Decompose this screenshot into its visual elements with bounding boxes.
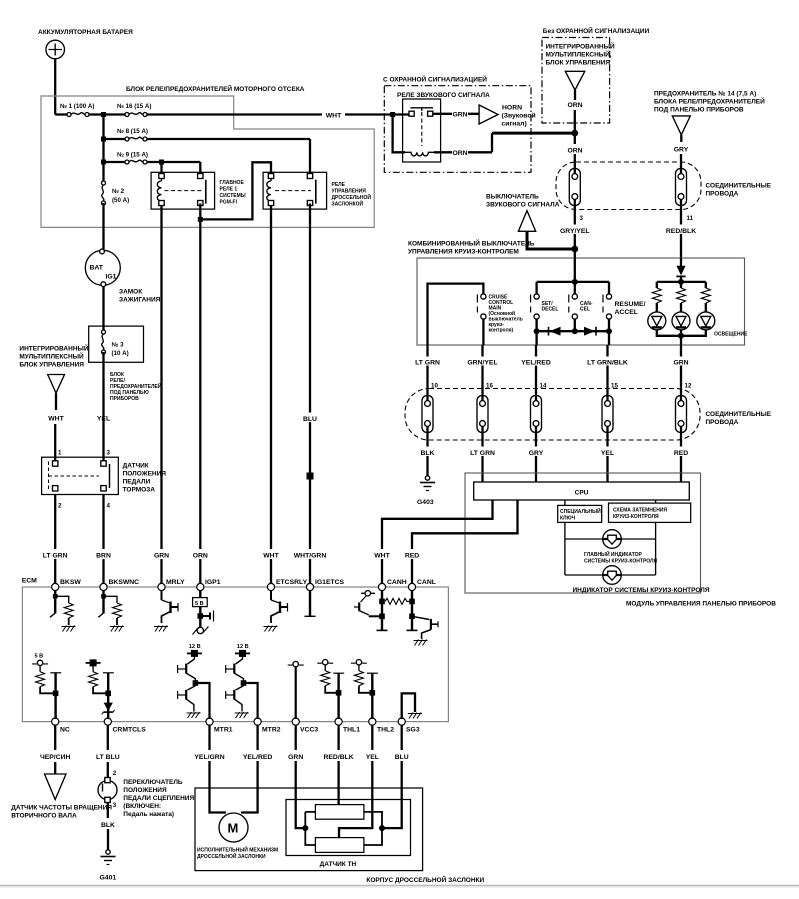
svg-text:№ 3: № 3: [112, 342, 125, 349]
ECM SG3 ground: [402, 693, 422, 719]
lamp L3 (illumination): [697, 312, 715, 330]
svg-text:ПРОВОДА: ПРОВОДА: [706, 419, 739, 426]
bottom page line: [0, 885, 799, 887]
wire LT GRN to MAIN switch: [428, 284, 484, 345]
wire label BLK: [98, 819, 118, 829]
svg-text:ЗАСЛОНКОЙ: ЗАСЛОНКОЙ: [332, 200, 364, 208]
potentiometer VR1 (TH sensor): [315, 805, 364, 820]
junction node switch feed: [572, 279, 578, 285]
svg-text:G403: G403: [417, 499, 434, 506]
pin ECM IGP1: [197, 583, 204, 590]
svg-text:ECM: ECM: [22, 578, 37, 585]
wire ORN bus to node: [492, 132, 575, 135]
wire WHT to horn relay: [345, 113, 393, 115]
ECM VCC3 supply output: [288, 661, 304, 719]
wire RED/BLK to TH pot 1 wiper: [337, 761, 339, 805]
diode D2: [584, 327, 595, 336]
svg-text:GRN/YEL: GRN/YEL: [467, 360, 497, 367]
svg-text:CRMTCLS: CRMTCLS: [113, 727, 147, 734]
connector pin 15 capsule: [602, 396, 613, 433]
junction node illumination top: [678, 279, 684, 285]
wires switch box to lower connectors: [428, 345, 682, 396]
wire label BLU: [392, 751, 413, 761]
svg-text:WHT/GRN: WHT/GRN: [294, 553, 327, 560]
svg-text:GRN: GRN: [673, 360, 688, 367]
junction node WHT at horn relay + coil feed wire: [390, 112, 395, 117]
countershaft speed sensor arrow symbol: [45, 774, 67, 800]
ECM CANL transceiver circuit: [407, 590, 439, 646]
svg-text:ДРОССЕЛЬНОЙ: ДРОССЕЛЬНОЙ: [332, 193, 372, 201]
svg-text:(10 А): (10 А): [112, 350, 129, 357]
junction node SET/DECEL out: [534, 328, 540, 334]
wire label RED/BLK: [663, 225, 700, 235]
wire label LT BLU: [94, 751, 123, 761]
wire label YEL/RED: [237, 751, 279, 761]
pin ECM MRLY: [158, 583, 165, 590]
relay K3 horn relay box: [403, 99, 441, 162]
fuse F1 (100 A): [55, 113, 67, 115]
svg-text:LT GRN/BLK: LT GRN/BLK: [587, 360, 628, 367]
svg-text:3: 3: [107, 450, 111, 457]
svg-text:NC: NC: [60, 727, 70, 734]
connector pin 11 capsule: [676, 169, 687, 206]
svg-text:MRLY: MRLY: [166, 579, 185, 586]
ground G401 symbol: [101, 850, 116, 865]
wire fuse8 down to relay2 contact: [309, 139, 311, 173]
resistor R3 (illumination): [701, 288, 710, 303]
wire WHT CANH: [382, 500, 493, 587]
svg-text:СПЕЦИАЛЬНЫЙ: СПЕЦИАЛЬНЫЙ: [560, 507, 601, 515]
svg-text:ПРИБОРОВ: ПРИБОРОВ: [110, 396, 139, 402]
svg-text:GRY: GRY: [529, 450, 544, 457]
svg-text:(50 А): (50 А): [112, 197, 129, 204]
svg-text:YEL: YEL: [366, 754, 379, 761]
wire label GRN: [670, 357, 692, 366]
svg-text:RESUME/: RESUME/: [615, 301, 646, 308]
wire WHT column (K2 coil to ETCSRLY): [270, 205, 272, 587]
ignition switch SW1 (BAT/IG1): [85, 250, 120, 285]
lamp L1 (illumination): [648, 312, 666, 330]
svg-text:12: 12: [685, 383, 692, 390]
lamp L2 (illumination): [672, 312, 690, 330]
wire CRMTCLS down: [107, 725, 109, 750]
svg-text:BLK: BLK: [421, 450, 435, 457]
potentiometer VR2 (TH sensor): [315, 838, 364, 853]
wire to relay1 coil: [160, 162, 162, 174]
horn LS1 (HORN symbol): [479, 105, 498, 124]
svg-text:СИСТЕМЫ КРУИЗ-КОНТРОЛЯ: СИСТЕМЫ КРУИЗ-КОНТРОЛЯ: [584, 559, 657, 565]
svg-text:ВЫКЛЮЧАТЕЛЬ: ВЫКЛЮЧАТЕЛЬ: [486, 194, 539, 201]
svg-text:LT GRN: LT GRN: [470, 450, 495, 457]
svg-text:WHT: WHT: [48, 415, 64, 422]
svg-text:GRN: GRN: [452, 112, 467, 119]
wire to relay1 contact: [199, 162, 201, 174]
switch SW5 CAN-CEL: [569, 294, 578, 319]
wire label GRY/YEL: [557, 225, 593, 235]
wire label YEL/GRN: [188, 751, 230, 761]
svg-text:IGP1: IGP1: [205, 579, 221, 586]
svg-text:ТОРМОЗА: ТОРМОЗА: [123, 487, 156, 494]
svg-text:ЗАМОК: ЗАМОК: [119, 289, 142, 296]
wire NC down: [54, 725, 56, 750]
svg-text:PGM-FI: PGM-FI: [220, 200, 238, 206]
svg-text:ПОД ПАНЕЛЬЮ ПРИБОРОВ: ПОД ПАНЕЛЬЮ ПРИБОРОВ: [654, 107, 744, 114]
svg-text:ORN: ORN: [193, 553, 208, 560]
wire label BLK: [415, 447, 440, 457]
pin ECM IG1ETCS: [306, 583, 313, 590]
wires lower connectors to CPU / G403: [428, 433, 682, 483]
indicator lamp L4 (cruise main indicator): [603, 530, 622, 549]
svg-text:GRN: GRN: [154, 553, 169, 560]
svg-text:IG1ETCS: IG1ETCS: [315, 579, 345, 586]
connector pin 3 capsule: [569, 169, 580, 206]
svg-text:БЛОК УПРАВЛЕНИЯ: БЛОК УПРАВЛЕНИЯ: [546, 60, 611, 67]
wire label ЧЕР/СИН: [38, 751, 72, 761]
pin ECM CANL: [408, 583, 415, 590]
svg-text:ACCEL: ACCEL: [615, 309, 638, 316]
svg-text:THL1: THL1: [343, 727, 360, 734]
svg-text:ДАТЧИК ЧАСТОТЫ ВРАЩЕНИЯ: ДАТЧИК ЧАСТОТЫ ВРАЩЕНИЯ: [11, 805, 112, 812]
svg-text:№ 9 (15 А): № 9 (15 А): [117, 152, 148, 159]
svg-text:МОДУЛЬ УПРАВЛЕНИЯ ПАНЕЛЬЮ ПРИБ: МОДУЛЬ УПРАВЛЕНИЯ ПАНЕЛЬЮ ПРИБОРОВ: [626, 601, 776, 608]
box cruise dimming circuit: [655, 500, 657, 503]
svg-text:СОЕДИНИТЕЛЬНЫЕ: СОЕДИНИТЕЛЬНЫЕ: [706, 411, 772, 418]
svg-text:ETCSRLY: ETCSRLY: [276, 579, 308, 586]
ECM THL1 pull-up circuit: [317, 660, 344, 720]
wire label YEL: [597, 447, 619, 457]
svg-text:ЗАЖИГАНИЯ: ЗАЖИГАНИЯ: [119, 297, 161, 304]
svg-text:ИНДИКАТОР СИСТЕМЫ КРУИЗ-КОНТРО: ИНДИКАТОР СИСТЕМЫ КРУИЗ-КОНТРОЛЯ: [573, 587, 710, 594]
svg-text:3: 3: [113, 802, 117, 809]
wire label RED/BLK: [318, 751, 360, 761]
svg-text:IG1: IG1: [106, 274, 117, 281]
cruise combination switch box: [417, 258, 745, 345]
svg-text:ПЕДАЛИ: ПЕДАЛИ: [123, 479, 151, 486]
wire indicator lamp ring: [565, 522, 656, 575]
svg-text:G401: G401: [100, 875, 117, 882]
fuse F16 (15 A): [104, 113, 126, 115]
svg-text:ORN: ORN: [452, 150, 467, 157]
horn switch SW7 symbol: [518, 211, 535, 232]
svg-text:WHT: WHT: [374, 553, 390, 560]
ECM BKSW input circuit: [50, 590, 76, 632]
clutch switch SW2 symbol: [98, 781, 117, 800]
svg-text:MTR2: MTR2: [262, 727, 281, 734]
wire label LT GRN/BLK: [580, 357, 635, 366]
svg-text:GRY/YEL: GRY/YEL: [560, 228, 590, 235]
wire label YEL: [362, 751, 383, 761]
svg-text:ДАТЧИК: ДАТЧИК: [123, 463, 149, 470]
junction node fuse1/fuse16: [101, 112, 106, 117]
pin ECM ETCSRLY: [267, 583, 274, 590]
ECM box U2: [22, 587, 448, 722]
svg-text:BRN: BRN: [96, 553, 111, 560]
junction node RESUME out: [606, 328, 612, 334]
switch SW3 CRUISE CONTROL MAIN: [477, 294, 486, 319]
switch SW4 SET/DECEL: [531, 294, 540, 319]
svg-text:ПЕДАЛИ СЦЕПЛЕНИЯ: ПЕДАЛИ СЦЕПЛЕНИЯ: [123, 795, 194, 802]
svg-text:RED/BLK: RED/BLK: [323, 754, 353, 761]
relay K1 PGM-FI main relay 1 box: [151, 172, 215, 209]
wire label RED: [670, 447, 693, 457]
wire label LT GRN: [409, 357, 446, 366]
svg-text:ЗВУКОВОГО СИГНАЛА: ЗВУКОВОГО СИГНАЛА: [486, 202, 560, 209]
wires sensor pins down: [296, 725, 402, 750]
wire label BRN: [93, 549, 115, 559]
relay K1 coil: [161, 177, 163, 205]
dashed oval connectors (lower): [405, 389, 700, 441]
relay K2 contact: [307, 174, 312, 179]
wire label RED (CANL): [402, 549, 424, 559]
wire switch feed rail: [537, 281, 609, 283]
wire label YEL/RED: [515, 357, 557, 366]
wire GRN to horn: [441, 113, 480, 115]
svg-text:LT GRN: LT GRN: [415, 360, 440, 367]
relay1 contact bottom to relay2 coil routing: [200, 162, 271, 219]
junction node CAN-CEL out: [572, 328, 578, 334]
brake pedal position sensor S1: [42, 457, 119, 494]
svg-text:(Звуковой: (Звуковой: [502, 112, 536, 120]
svg-text:YEL/RED: YEL/RED: [521, 360, 551, 367]
svg-text:5 В: 5 В: [35, 654, 44, 660]
diode D3 (illumination feed): [680, 258, 682, 266]
wire ORN from K3 coil: [434, 133, 492, 152]
svg-text:ВТОРИЧНОГО ВАЛА: ВТОРИЧНОГО ВАЛА: [11, 813, 77, 820]
svg-text:1: 1: [58, 450, 62, 457]
fuse F9 (15 A): [104, 161, 126, 163]
svg-text:ИНТЕГРИРОВАННЫЙ: ИНТЕГРИРОВАННЫЙ: [546, 42, 615, 51]
svg-text:КЛЮЧ: КЛЮЧ: [560, 516, 576, 522]
transistor Q2 (ETCSRLY driver): [264, 590, 288, 632]
svg-text:WHT: WHT: [326, 112, 342, 119]
svg-text:3: 3: [580, 215, 584, 222]
svg-text:2: 2: [113, 770, 117, 777]
wire GRN to TH node: [296, 761, 306, 828]
junction node GRY/YEL horn switch: [571, 246, 578, 253]
svg-text:11: 11: [687, 215, 694, 222]
resistor R2 (illumination): [677, 288, 686, 303]
relay K3 coil: [405, 152, 434, 156]
wire fuse bus vertical: [102, 115, 104, 184]
svg-text:ПРОВОДА: ПРОВОДА: [706, 191, 739, 198]
ECM THL2 pull-up circuit: [351, 660, 378, 720]
junction node TH left: [302, 825, 308, 831]
svg-text:RED: RED: [674, 450, 688, 457]
ECM CRMTCLS 12V pull-up with diode: [86, 659, 115, 719]
fuse F3 (10 A) box: [89, 326, 144, 362]
svg-text:BLU: BLU: [395, 754, 409, 761]
svg-text:КРУИЗ-КОНТРОЛЯ: КРУИЗ-КОНТРОЛЯ: [613, 514, 659, 520]
node ORN column start: [198, 217, 203, 222]
svg-text:BLK: BLK: [101, 822, 115, 829]
svg-text:ЧЕР/СИН: ЧЕР/СИН: [40, 754, 71, 761]
svg-text:СОЕДИНИТЕЛЬНЫЕ: СОЕДИНИТЕЛЬНЫЕ: [706, 183, 772, 190]
svg-text:ИНТЕГРИРОВАННЫЙ: ИНТЕГРИРОВАННЫЙ: [19, 344, 88, 353]
svg-text:LT BLU: LT BLU: [96, 754, 120, 761]
pin ECM CANH: [378, 583, 385, 590]
junction node ORN: [571, 130, 578, 137]
ECM BKSWNC input circuit: [98, 590, 124, 632]
fuse F2 (50 A): [102, 181, 106, 205]
svg-text:ГЛАВНЫЙ ИНДИКАТОР: ГЛАВНЫЙ ИНДИКАТОР: [584, 550, 643, 558]
svg-text:СХЕМА ЗАТЕМНЕНИЯ: СХЕМА ЗАТЕМНЕНИЯ: [613, 508, 667, 514]
svg-text:HORN: HORN: [502, 105, 522, 112]
svg-text:YEL: YEL: [601, 450, 614, 457]
pin ECM MTR1: [206, 718, 213, 725]
svg-text:УПРАВЛЕНИЯ КРУИЗ-КОНТРОЛЕМ: УПРАВЛЕНИЯ КРУИЗ-КОНТРОЛЕМ: [408, 249, 519, 256]
svg-text:SG3: SG3: [406, 727, 420, 734]
connector pin 14 capsule: [531, 396, 542, 433]
connector pin 16 capsule: [477, 396, 488, 433]
transistor pair Q3/Q4 (MTR1 driver): [178, 644, 210, 719]
wire label LT GRN: [466, 447, 500, 457]
svg-text:ПЕРЕКЛЮЧАТЕЛЬ: ПЕРЕКЛЮЧАТЕЛЬ: [123, 779, 183, 786]
pin ECM THL1: [335, 718, 342, 725]
wire label GRN: [150, 549, 173, 559]
pin ECM CRMTCLS: [104, 718, 111, 725]
indicator lamp L5 (cruise indicator): [603, 566, 622, 585]
wire label GRN: [285, 751, 307, 761]
svg-text:(ВКЛЮЧЕН:: (ВКЛЮЧЕН:: [123, 803, 161, 810]
pin ECM BKSWNC: [100, 583, 107, 590]
svg-text:RED: RED: [405, 553, 419, 560]
connector splice BLU/WHT-GRN: [307, 473, 314, 480]
instrument panel control module box: [465, 473, 701, 593]
junction node fuse 9 tap: [101, 160, 106, 165]
relay K1 contact: [159, 174, 164, 179]
svg-text:РЕЛЕ ЗВУКОВОГО СИГНАЛА: РЕЛЕ ЗВУКОВОГО СИГНАЛА: [397, 92, 490, 99]
wire BLU/WHT-GRN column (K2 contact to IG1ETCS): [309, 204, 311, 588]
wire ORN column (K1 contact to IGP1): [199, 219, 201, 587]
ECM NC 5V pull-up circuit: [32, 654, 61, 720]
svg-text:ПОЛОЖЕНИЯ: ПОЛОЖЕНИЯ: [123, 787, 167, 794]
battery B1 (+): [46, 40, 65, 59]
diode D1: [550, 327, 561, 336]
wire BLU to TH node: [382, 761, 402, 828]
svg-text:GRY: GRY: [674, 147, 689, 154]
throttle body box: [195, 788, 423, 871]
svg-text:ДАТЧИК TH: ДАТЧИК TH: [320, 861, 357, 868]
svg-text:№ 1 (100 А): № 1 (100 А): [60, 103, 94, 110]
svg-text:MTR1: MTR1: [214, 727, 233, 734]
ground G403: [420, 476, 435, 491]
wires MTR1/MTR2 down: [210, 725, 258, 750]
svg-text:2: 2: [58, 503, 62, 510]
connector pin 10 capsule: [422, 396, 433, 433]
svg-text:BAT: BAT: [90, 265, 104, 272]
svg-text:БЛОКА РЕЛЕ/ПРЕДОХРАНИТЕЛЕЙ: БЛОКА РЕЛЕ/ПРЕДОХРАНИТЕЛЕЙ: [654, 97, 765, 106]
svg-text:Педаль нажата): Педаль нажата): [123, 811, 174, 818]
wire RED CANL: [412, 500, 518, 587]
svg-text:12 В: 12 В: [189, 644, 201, 650]
svg-text:БЛОК УПРАВЛЕНИЯ: БЛОК УПРАВЛЕНИЯ: [19, 362, 84, 369]
wire label ORN: [189, 549, 212, 559]
svg-text:RED/BLK: RED/BLK: [666, 228, 696, 235]
svg-text:сигнал): сигнал): [502, 121, 527, 128]
svg-text:МУЛЬТИПЛЕКСНЫЙ: МУЛЬТИПЛЕКСНЫЙ: [19, 352, 84, 361]
svg-text:ORN: ORN: [567, 102, 582, 109]
svg-text:С ОХРАННОЙ СИГНАЛИЗАЦИЕЙ: С ОХРАННОЙ СИГНАЛИЗАЦИЕЙ: [383, 75, 487, 84]
wire GRY/YEL into switch box: [574, 249, 576, 282]
svg-text:YEL/RED: YEL/RED: [243, 754, 273, 761]
svg-text:M: M: [228, 821, 239, 836]
svg-text:THL2: THL2: [377, 727, 394, 734]
relay K2 coil: [270, 177, 272, 205]
svg-text:контроля): контроля): [489, 328, 514, 334]
source arrow fuse № 14 GRY: [672, 116, 690, 135]
wire diode row: [537, 319, 609, 331]
svg-text:УПРАВЛЕНИЯ: УПРАВЛЕНИЯ: [332, 189, 367, 195]
svg-text:CEL: CEL: [580, 307, 590, 313]
pin ECM SG3: [398, 718, 405, 725]
wire label WHT: [259, 549, 283, 559]
svg-text:4: 4: [107, 503, 111, 510]
transistor pair Q5/Q6 (MTR2 driver): [226, 644, 258, 719]
svg-text:CPU: CPU: [575, 490, 589, 497]
svg-text:WHT: WHT: [263, 553, 279, 560]
wire RED/BLK: [680, 169, 682, 259]
svg-text:ПРЕДОХРАНИТЕЛЬ № 14 (7,5 А): ПРЕДОХРАНИТЕЛЬ № 14 (7,5 А): [654, 91, 756, 98]
wire YEL fuse3 to brake switch: [102, 352, 104, 463]
svg-text:BLU: BLU: [303, 416, 317, 423]
CPU U1 box: [474, 482, 690, 500]
svg-text:РЕЛЕ: РЕЛЕ: [332, 182, 346, 188]
wire label ORN: [562, 144, 588, 154]
dashed box with-alarm variant: [384, 86, 531, 173]
junction node TH right: [379, 825, 385, 831]
pin ECM VCC3: [292, 718, 299, 725]
svg-text:ГЛАВНОЕ: ГЛАВНОЕ: [220, 180, 245, 186]
transistor Q1 (MRLY driver): [154, 590, 178, 632]
svg-text:BKSW: BKSW: [60, 579, 81, 586]
engine fuse/relay box (gray): [41, 96, 374, 227]
svg-text:Без ОХРАННОЙ СИГНАЛИЗАЦИИ: Без ОХРАННОЙ СИГНАЛИЗАЦИИ: [543, 26, 650, 35]
wire label BLU: [300, 413, 321, 423]
wire YEL/RED to motor: [241, 761, 258, 813]
wire label LT GRN: [41, 549, 70, 559]
pin ECM MTR2: [254, 718, 261, 725]
wire IG1 to fuse 3: [102, 287, 104, 333]
svg-text:КОМБИНИРОВАННЫЙ ВЫКЛЮЧАТЕЛЬ: КОМБИНИРОВАННЫЙ ВЫКЛЮЧАТЕЛЬ: [408, 239, 535, 248]
pin ECM BKSW: [52, 583, 59, 590]
svg-text:КОРПУС ДРОССЕЛЬНОЙ ЗАСЛОНКИ: КОРПУС ДРОССЕЛЬНОЙ ЗАСЛОНКИ: [366, 875, 484, 884]
relay K2 throttle control relay box: [263, 172, 327, 209]
ECM CANH transceiver circuit: [354, 590, 410, 630]
pin ECM NC: [52, 718, 59, 725]
wire YEL to TH pot 2 wiper: [339, 761, 372, 838]
fuse F8 (15 A): [104, 138, 126, 140]
wire label WHT/GRN: [288, 549, 333, 559]
TH sensor (dual potentiometer): [286, 800, 411, 856]
box special key: [564, 500, 566, 505]
svg-text:МУЛЬТИПЛЕКСНЫЙ,: МУЛЬТИПЛЕКСНЫЙ,: [546, 50, 612, 59]
svg-text:ПОЛОЖЕНИЯ: ПОЛОЖЕНИЯ: [123, 471, 167, 478]
svg-text:DECEL: DECEL: [542, 307, 559, 313]
svg-text:CANL: CANL: [417, 579, 436, 586]
svg-text:СИСТЕМЫ: СИСТЕМЫ: [220, 193, 246, 199]
svg-text:GRN: GRN: [288, 754, 303, 761]
switch SW6 RESUME/ACCEL: [603, 294, 612, 319]
relay K3 contact: [410, 107, 433, 109]
wire GRN column (K1 coil to MRLY): [160, 205, 162, 587]
wire LT GRN (pin2 to BKSW): [54, 495, 56, 588]
junction node fuse 8 tap: [101, 137, 106, 142]
svg-text:№ 2: № 2: [112, 188, 125, 195]
svg-text:РЕЛЕ 1: РЕЛЕ 1: [220, 187, 238, 193]
ECM IGP1 5V regulator circuit: [193, 590, 214, 635]
pin ECM THL2: [369, 718, 376, 725]
wire BRN (pin4 to BKSWNC): [102, 495, 104, 588]
